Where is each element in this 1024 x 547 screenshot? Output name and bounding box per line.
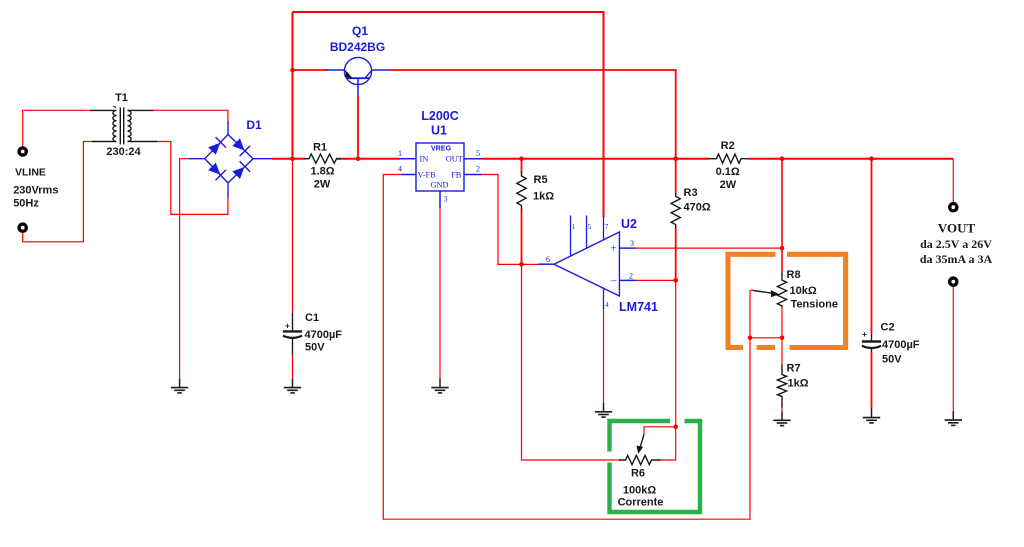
label C2 value: [882, 339, 920, 351]
label C2 voltage: [882, 354, 902, 366]
svg-text:C1: C1: [305, 312, 319, 324]
wire U1 GND to ground: [439, 208, 441, 379]
wire Q1 collector to main rail: [389, 70, 676, 159]
svg-text:6: 6: [546, 255, 550, 264]
svg-text:10kΩ: 10kΩ: [790, 285, 817, 297]
resistor R2: [709, 154, 749, 163]
svg-text:U2: U2: [621, 217, 637, 231]
U2 minus sign: [610, 274, 617, 286]
ground (bridge): [171, 379, 188, 393]
diode D1a (left-top): [208, 137, 226, 155]
node rail / R8 branch: [780, 156, 785, 161]
svg-text:–: –: [610, 274, 617, 286]
U2 pin 3: [630, 239, 634, 248]
svg-text:4700µF: 4700µF: [305, 329, 343, 341]
node Q1 emitter / left rail: [290, 68, 295, 73]
svg-text:5: 5: [476, 149, 480, 158]
svg-text:OUT: OUT: [446, 155, 463, 164]
wire D1 right vertex to R1: [272, 158, 306, 160]
node U2 +in / R8 top: [780, 246, 785, 251]
label C1: [305, 312, 319, 324]
svg-text:+: +: [862, 329, 867, 339]
U1 VREG text: [431, 143, 452, 152]
R8 wiper arrow: [750, 290, 779, 297]
ground (R7): [773, 412, 790, 426]
wire U1 FB to op-amp output: [482, 175, 540, 265]
svg-text:V-FB: V-FB: [418, 171, 437, 180]
diode D1b (top-right): [232, 138, 250, 156]
svg-text:C2: C2: [881, 322, 895, 334]
ground (C2): [863, 409, 880, 423]
svg-text:50Hz: 50Hz: [13, 198, 39, 210]
svg-text:L200C: L200C: [421, 109, 459, 123]
svg-text:R2: R2: [721, 140, 735, 152]
svg-text:GND: GND: [431, 181, 449, 190]
wire U2 +in to R8 top node: [636, 247, 783, 249]
svg-text:Tensione: Tensione: [791, 299, 838, 311]
U2 pin 7: [605, 223, 609, 231]
terminal VOUT-: [950, 278, 957, 285]
wire R8 bottom: [781, 308, 783, 338]
diode D1d (bottom-right): [232, 161, 250, 179]
svg-text:1kΩ: 1kΩ: [788, 378, 809, 390]
svg-text:U1: U1: [431, 124, 447, 138]
label R8: [787, 269, 801, 281]
wire T1 secondary top to D1 top: [154, 110, 228, 121]
label R8 value: [790, 285, 817, 297]
svg-text:VOUT: VOUT: [938, 221, 976, 236]
node Q1 base / R1 / U1 IN: [356, 156, 361, 161]
label Q1: [352, 24, 368, 38]
U2 pin 2: [629, 271, 633, 280]
label VLINE: [15, 167, 46, 179]
wire R5 top: [521, 159, 523, 173]
transformer T1: [90, 106, 157, 145]
resistor R5: [517, 172, 526, 211]
svg-text:VREG: VREG: [431, 143, 452, 152]
svg-text:100kΩ: 100kΩ: [623, 485, 656, 497]
node rail / C2: [869, 156, 874, 161]
label BD242BG: [330, 40, 385, 54]
node R8 bottom / R7: [780, 336, 785, 341]
label R3: [684, 187, 698, 199]
svg-text:R1: R1: [313, 142, 327, 154]
svg-text:0.1Ω: 0.1Ω: [716, 166, 740, 178]
svg-text:230:24: 230:24: [106, 146, 141, 158]
svg-text:230Vrms: 230Vrms: [13, 185, 58, 197]
svg-text:R7: R7: [787, 363, 801, 375]
svg-text:R8: R8: [787, 269, 801, 281]
U2 pin 1: [572, 223, 576, 231]
label U1: [431, 124, 447, 138]
wire R7 to ground: [781, 408, 783, 412]
label D1: [246, 118, 262, 132]
label C1 voltage: [305, 342, 325, 354]
label R7: [787, 363, 801, 375]
wire U2 pin4 to ground: [603, 309, 605, 403]
svg-text:3: 3: [630, 239, 634, 248]
terminal VLINE-: [19, 224, 26, 231]
node R3 / U2 -in: [673, 278, 678, 283]
svg-text:2W: 2W: [720, 179, 737, 191]
svg-text:da 2.5V a 26V: da 2.5V a 26V: [920, 237, 992, 251]
label LM741: [619, 300, 658, 314]
wire R6 wiper link: [644, 427, 676, 435]
svg-text:50V: 50V: [305, 342, 325, 354]
C1 plus sign: [285, 321, 290, 331]
svg-text:R5: R5: [534, 174, 548, 186]
label R2 power: [720, 179, 737, 191]
svg-text:4: 4: [398, 165, 402, 174]
diode bridge D1 frame: [188, 121, 271, 198]
label VOUT range V: [920, 237, 992, 251]
voltage regulator U1 L200C box: [400, 143, 482, 208]
capacitor C2: [862, 334, 881, 352]
label VOUT range A: [920, 252, 993, 266]
label R1 power: [314, 179, 331, 191]
U1 pin 3: [444, 195, 448, 204]
diode D1c (left-bottom): [208, 163, 226, 181]
potentiometer R8: [777, 273, 786, 308]
label R6 value: [623, 485, 656, 497]
svg-text:da 35mA a 3A: da 35mA a 3A: [920, 252, 993, 266]
svg-text:+: +: [285, 321, 290, 331]
svg-text:FB: FB: [451, 171, 462, 180]
wire D1 left vertex to ground: [180, 159, 189, 379]
node Q1 collector / R3 / rail: [673, 156, 678, 161]
wire U1 OUT to R2: [482, 158, 710, 160]
ground (C1): [284, 379, 301, 393]
wire T1 secondary bottom to D1 bottom: [157, 142, 228, 215]
label R6: [631, 468, 645, 480]
wire C1 to ground: [292, 355, 294, 380]
C2 plus sign: [862, 329, 867, 339]
svg-text:BD242BG: BD242BG: [330, 40, 385, 54]
U1 OUT text: [446, 155, 463, 164]
label R7 value: [788, 378, 809, 390]
node R5 / FB / op-amp out: [519, 262, 524, 267]
label R3 value: [684, 202, 711, 214]
transistor Q1: [326, 57, 390, 96]
svg-text:2: 2: [629, 271, 633, 280]
wire R1 to U1 IN: [336, 158, 400, 160]
wire Q1 base to node: [357, 96, 359, 159]
label R1: [313, 142, 327, 154]
wire T1 primary bottom to VLINE-: [23, 142, 92, 242]
wire R3 bottom to R6 node: [675, 228, 677, 427]
wire U2 -in to R3 node: [636, 279, 676, 281]
wire VLINE+ to T1 primary top: [23, 110, 90, 147]
label R6 name: [618, 497, 664, 509]
wire C2 top: [871, 159, 873, 334]
label L200C: [421, 109, 459, 123]
U2 pin 5: [588, 223, 592, 231]
terminal VOUT+: [950, 204, 957, 211]
svg-text:1: 1: [398, 149, 402, 158]
resistor R3: [671, 193, 680, 228]
terminal VLINE+: [19, 148, 26, 155]
svg-text:7: 7: [605, 223, 609, 231]
wire R8 wiper down: [749, 290, 751, 338]
wire R6 right leg: [659, 427, 676, 460]
svg-text:4700µF: 4700µF: [882, 339, 920, 351]
svg-text:470Ω: 470Ω: [684, 202, 711, 214]
capacitor C1: [283, 313, 302, 355]
node bridge+ / R1 / rail: [290, 156, 295, 161]
svg-text:2: 2: [476, 165, 480, 174]
svg-text:T1: T1: [115, 92, 128, 104]
label T1: [115, 92, 128, 104]
label C1 value: [305, 329, 343, 341]
U1 GND text: [431, 181, 449, 190]
label R2: [721, 140, 735, 152]
potentiometer R6: [619, 455, 661, 464]
U1 pin 4: [398, 165, 402, 174]
ground (VOUT-): [945, 411, 962, 425]
wire node to R6 left: [522, 264, 621, 460]
label C2: [881, 322, 895, 334]
resistor R7: [777, 365, 786, 408]
U1 pin 1: [398, 149, 402, 158]
U1 FB text: [451, 171, 462, 180]
wire Q1 emitter: [293, 69, 328, 71]
green highlight box (Corrente): [610, 421, 701, 512]
node U1 OUT / R5: [519, 156, 524, 161]
orange highlight box (Tensione): [728, 254, 846, 347]
wire R8 to R7: [781, 338, 783, 365]
svg-text:D1: D1: [246, 118, 262, 132]
svg-text:LM741: LM741: [619, 300, 658, 314]
wire R3 top: [675, 159, 677, 194]
node R6 right / wiper: [673, 425, 678, 430]
resistor R1: [305, 154, 342, 163]
wire R5 bottom to node: [521, 210, 523, 265]
label R8 name: [791, 299, 838, 311]
svg-text:50V: 50V: [882, 354, 902, 366]
svg-text:IN: IN: [420, 155, 429, 164]
svg-text:Q1: Q1: [352, 24, 368, 38]
U2 plus sign: [610, 242, 616, 254]
wire C2 to ground: [871, 352, 873, 409]
wire VOUT- to ground: [952, 286, 954, 411]
svg-text:4: 4: [605, 301, 609, 309]
U2 pin 6: [546, 255, 550, 264]
svg-text:2W: 2W: [314, 179, 331, 191]
svg-text:+: +: [610, 242, 616, 254]
label R2 value: [716, 166, 740, 178]
label VOUT: [938, 221, 976, 236]
U1 IN text: [420, 155, 429, 164]
svg-text:R3: R3: [684, 187, 698, 199]
wire U1 V-FB bottom return: [383, 175, 750, 520]
svg-text:Corrente: Corrente: [618, 497, 664, 509]
ground (U1 GND): [431, 379, 448, 393]
U1 pin 5: [476, 149, 480, 158]
wire vertical rail x292 upper: [292, 12, 294, 313]
label 50Hz: [13, 198, 39, 210]
label 230:24: [106, 146, 141, 158]
label R1 value: [310, 166, 334, 178]
svg-text:3: 3: [444, 195, 448, 204]
svg-text:1kΩ: 1kΩ: [533, 191, 554, 203]
svg-text:VLINE: VLINE: [15, 167, 46, 179]
svg-text:1: 1: [572, 223, 576, 231]
U1 V-FB text: [418, 171, 437, 180]
wire R2 to VOUT: [749, 159, 954, 203]
R6 wiper arrow: [637, 434, 645, 454]
U1 pin 2: [476, 165, 480, 174]
svg-text:5: 5: [588, 223, 592, 231]
label 230Vrms: [13, 185, 58, 197]
svg-text:R6: R6: [631, 468, 645, 480]
label R5 value: [533, 191, 554, 203]
wire top rail to U2 pin7: [293, 12, 604, 217]
label U2: [621, 217, 637, 231]
svg-text:1.8Ω: 1.8Ω: [310, 166, 334, 178]
ground (U2 pin4): [595, 403, 612, 417]
label R5: [534, 174, 548, 186]
op-amp U2 triangle: [539, 216, 636, 310]
wire rail to R8: [781, 159, 783, 273]
wire R8 bottom link: [750, 337, 782, 339]
node R8 wiper / link: [748, 336, 753, 341]
U2 pin 4: [605, 301, 609, 309]
